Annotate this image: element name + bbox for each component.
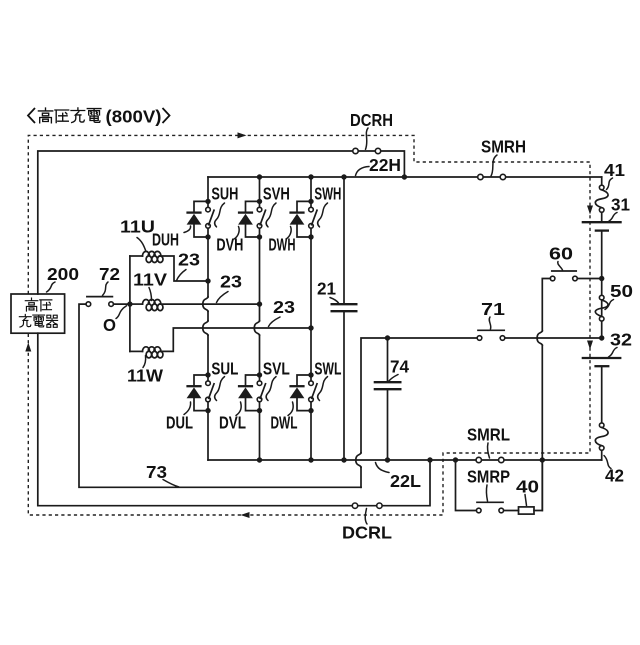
switch SMRP xyxy=(476,508,481,513)
junction 22L/bypass xyxy=(540,457,545,462)
wire V-phase lower xyxy=(259,411,261,460)
wire W-phase upper xyxy=(310,177,312,201)
svg-text:40: 40 xyxy=(516,477,539,497)
junction 22L/SMRP xyxy=(453,457,458,462)
svg-text:DCRH: DCRH xyxy=(350,110,393,130)
capacitor C21 xyxy=(343,177,345,303)
inductor 11U xyxy=(130,255,143,257)
battery B2 (32) xyxy=(582,357,622,359)
node O junction xyxy=(127,301,132,306)
wire 22H positive dc rail xyxy=(208,176,602,178)
junction 22H/DVH xyxy=(257,174,262,179)
svg-text:23: 23 xyxy=(178,250,200,270)
svg-text:SWH: SWH xyxy=(314,183,341,203)
svg-text:DWL: DWL xyxy=(271,413,298,433)
title: high-voltage charging (800V) xyxy=(28,106,170,126)
wire U-phase upper xyxy=(207,177,209,201)
junction 22L/C21 xyxy=(341,457,346,462)
svg-text:21: 21 xyxy=(317,279,336,299)
wire 72 to node O xyxy=(113,303,129,305)
svg-text:SMRL: SMRL xyxy=(467,425,510,445)
wire 41 (positive battery cable) xyxy=(601,177,603,185)
wire charger- to DCRL to 22L xyxy=(38,333,430,506)
wire V-phase upper xyxy=(259,177,261,201)
wire 50 (battery link) xyxy=(599,295,604,300)
relay contact SMRH xyxy=(478,174,483,179)
junction 22H/DCRH xyxy=(402,174,407,179)
svg-text:11U: 11U xyxy=(120,217,155,237)
svg-text:SUH: SUH xyxy=(211,183,238,203)
relay contact SMRL xyxy=(476,457,481,462)
svg-text:DUH: DUH xyxy=(152,230,179,250)
svg-text:DVH: DVH xyxy=(216,235,243,255)
battery B1 (31) xyxy=(582,221,622,223)
switch 60 xyxy=(550,276,555,281)
svg-text:SMRH: SMRH xyxy=(481,137,526,157)
node O neutral vertical xyxy=(129,256,131,351)
svg-text:32: 32 xyxy=(610,330,632,350)
junction 22L/C74 xyxy=(385,457,390,462)
svg-text:SUL: SUL xyxy=(211,359,238,379)
svg-text:200: 200 xyxy=(47,264,79,284)
svg-text:DVL: DVL xyxy=(219,413,246,433)
inductor 11W xyxy=(130,350,143,352)
svg-text:DCRL: DCRL xyxy=(342,523,392,543)
svg-text:SWL: SWL xyxy=(314,359,341,379)
relay contact DCRH xyxy=(353,148,358,153)
svg-text:22L: 22L xyxy=(390,471,421,491)
arrow up on left dashed path xyxy=(25,343,31,352)
junction V winding xyxy=(257,301,262,306)
junction 22L/SWL xyxy=(308,457,313,462)
svg-text:23: 23 xyxy=(220,272,242,292)
wire 73 (node O to battery midpoint) xyxy=(79,304,361,487)
charging current path (dashed loop) xyxy=(28,135,590,515)
svg-text:74: 74 xyxy=(390,357,409,377)
svg-text:31: 31 xyxy=(611,195,630,215)
svg-text:O: O xyxy=(103,315,116,335)
transistor SWH with diode DWH xyxy=(308,199,313,204)
svg-text:60: 60 xyxy=(549,244,573,264)
junction 22H/C21 xyxy=(341,174,346,179)
wire W-phase lower xyxy=(310,411,312,460)
wire V-phase midpoint xyxy=(259,237,261,321)
arrow left on bottom dashed path xyxy=(241,512,250,518)
wire battery B1 to node 32 xyxy=(601,232,603,338)
switch 72 xyxy=(86,302,91,307)
svg-text:22H: 22H xyxy=(369,155,401,175)
transistor SVH with diode DVH xyxy=(257,199,262,204)
junction 22H/DWH xyxy=(308,174,313,179)
transistor SWL with diode DWL xyxy=(308,372,313,377)
svg-text:SMRP: SMRP xyxy=(467,467,510,487)
wire U-phase lower xyxy=(207,411,209,460)
inductor 11V xyxy=(130,303,143,305)
svg-text:73: 73 xyxy=(146,462,167,482)
switch 71 xyxy=(477,336,482,341)
junction W winding xyxy=(308,325,313,330)
transistor SVL with diode DVL xyxy=(257,372,262,377)
svg-text:DWH: DWH xyxy=(269,235,296,255)
svg-text:42: 42 xyxy=(605,466,624,486)
junction mid-line/C74 xyxy=(385,335,390,340)
relay contact DCRL xyxy=(352,503,357,508)
wire charger+ to DCRH to node 22H xyxy=(38,151,405,294)
wire precharge branch xyxy=(456,460,477,511)
svg-text:11W: 11W xyxy=(127,366,163,386)
svg-text:50: 50 xyxy=(610,281,633,301)
capacitor C74 xyxy=(387,338,389,381)
svg-text:41: 41 xyxy=(604,160,625,180)
arrow down on right dashed path xyxy=(587,206,593,215)
arrow down on right dashed path 2 xyxy=(587,341,593,350)
svg-text:11V: 11V xyxy=(133,270,167,290)
svg-text:SVH: SVH xyxy=(263,183,290,203)
wire 42 (negative battery cable) xyxy=(601,367,603,423)
svg-text:23: 23 xyxy=(273,297,295,317)
junction 22L/SVL xyxy=(257,457,262,462)
wire 71 to battery midpoint xyxy=(505,337,602,339)
wire 60 bypass vertical xyxy=(542,279,550,331)
wire 22L negative dc rail xyxy=(208,459,602,461)
wire U-phase midpoint xyxy=(207,237,209,297)
resistor R40 xyxy=(519,507,535,514)
junction U winding xyxy=(205,278,210,283)
svg-text:DUL: DUL xyxy=(166,413,193,433)
junction battery/60 xyxy=(599,276,604,281)
svg-text:(800V): (800V) xyxy=(106,106,162,126)
junction 22L/DCRL xyxy=(427,457,432,462)
wire 60 to battery column xyxy=(577,278,601,280)
svg-text:71: 71 xyxy=(481,299,505,319)
transistor SUL with diode DUL xyxy=(205,372,210,377)
wire W-phase midpoint xyxy=(310,237,312,375)
transistor SUH with diode DUH xyxy=(205,199,210,204)
arrow right on top dashed path xyxy=(238,132,247,138)
svg-text:SVL: SVL xyxy=(263,359,290,379)
svg-text:72: 72 xyxy=(99,264,120,284)
charger box 200 (high-voltage charger) xyxy=(11,294,65,333)
junction battery midpoint node 32 xyxy=(599,335,604,340)
